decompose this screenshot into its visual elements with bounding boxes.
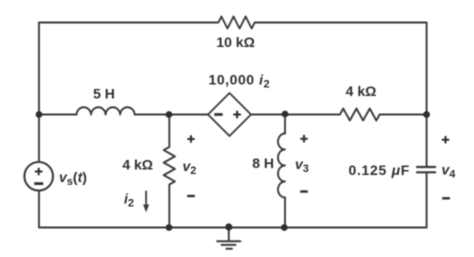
svg-text:vs(t): vs(t) <box>59 169 87 188</box>
svg-text:0.125 μF: 0.125 μF <box>348 162 410 178</box>
svg-text:v4: v4 <box>442 162 457 181</box>
svg-text:i2: i2 <box>124 191 134 210</box>
svg-text:4 kΩ: 4 kΩ <box>122 157 153 173</box>
svg-text:8 H: 8 H <box>252 155 274 171</box>
svg-text:10 kΩ: 10 kΩ <box>216 34 254 50</box>
svg-text:v3: v3 <box>295 156 309 175</box>
svg-text:4 kΩ: 4 kΩ <box>346 83 377 99</box>
svg-text:10,000 i2: 10,000 i2 <box>209 72 271 91</box>
svg-text:5 H: 5 H <box>93 86 115 102</box>
svg-text:v2: v2 <box>183 158 197 177</box>
